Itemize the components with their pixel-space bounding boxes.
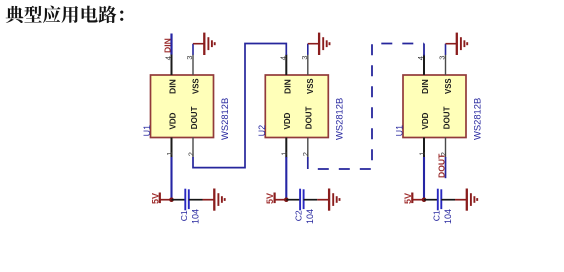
svg-text:3: 3: [300, 56, 309, 60]
wire VDD pin1 to 5V rail: [423, 157, 425, 200]
svg-text:VDD: VDD: [421, 112, 430, 129]
pin 2 DOUT stub: [307, 138, 309, 158]
svg-text:DIN: DIN: [282, 79, 292, 94]
node VDD junction: [169, 197, 174, 202]
power 5V: [265, 193, 286, 205]
node VDD junction: [422, 197, 427, 202]
wire capacitor to ground: [189, 199, 203, 201]
svg-text:VDD: VDD: [283, 112, 292, 129]
svg-text:WS2812B: WS2812B: [219, 98, 230, 140]
IC U1 WS2812B body: [151, 75, 214, 138]
pin 4 DIN stub: [171, 55, 173, 76]
svg-text:4: 4: [416, 56, 425, 60]
svg-text:VDD: VDD: [168, 112, 177, 129]
power 5V: [150, 193, 171, 205]
svg-text:3: 3: [185, 56, 194, 60]
svg-text:5V: 5V: [403, 193, 413, 204]
svg-text:2: 2: [186, 152, 195, 156]
node VDD junction: [284, 197, 289, 202]
svg-text:5V: 5V: [265, 193, 275, 204]
ground (bottom, C1): [455, 189, 477, 211]
ground (top, pin 3 U1): [446, 33, 468, 55]
pin 2 DOUT stub: [445, 138, 447, 158]
svg-text:U1: U1: [142, 125, 152, 137]
svg-text:1: 1: [165, 152, 174, 156]
wire U2 DOUT to U3 DIN dashed continuation: [308, 44, 424, 170]
svg-text:WS2812B: WS2812B: [334, 98, 345, 140]
ground (top, pin 3 U2): [308, 33, 330, 55]
power 5V: [403, 193, 424, 205]
svg-text:4: 4: [164, 56, 173, 60]
svg-text:104: 104: [190, 209, 200, 224]
svg-text:2: 2: [301, 152, 310, 156]
wire U2 DOUT solid stub: [307, 157, 309, 169]
svg-text:4: 4: [279, 56, 288, 60]
svg-text:3: 3: [438, 56, 447, 60]
pin 4 DIN stub: [285, 55, 287, 76]
pin 1 VDD stub: [423, 138, 425, 158]
ground (bottom, C2): [317, 189, 339, 211]
wire VDD pin1 to 5V rail: [170, 157, 172, 200]
svg-text:DOUT: DOUT: [305, 106, 314, 129]
wire rail to capacitor: [286, 199, 300, 201]
svg-text:U2: U2: [257, 125, 267, 137]
wire capacitor to ground: [441, 199, 455, 201]
capacitor C2 104: [300, 189, 304, 211]
pin 1 VDD stub: [285, 138, 287, 158]
wire pin3 to ground: [307, 44, 309, 55]
wire U3 DOUT stub: [445, 157, 447, 178]
wire pin3 to ground: [445, 44, 447, 55]
svg-text:C1: C1: [431, 210, 441, 221]
pin 1 VDD stub: [171, 138, 173, 158]
svg-text:DOUT: DOUT: [442, 106, 451, 129]
wire capacitor to ground: [304, 199, 318, 201]
svg-text:5V: 5V: [150, 193, 160, 204]
wire VDD pin1 to 5V rail: [285, 157, 287, 200]
capacitor C1 104: [438, 189, 442, 211]
svg-text:DIN: DIN: [162, 38, 172, 53]
svg-text:104: 104: [305, 209, 315, 224]
svg-text:C2: C2: [294, 210, 304, 221]
wire U1 DOUT to U2 DIN: [193, 44, 286, 168]
wire rail to capacitor: [424, 199, 438, 201]
svg-text:1: 1: [280, 152, 289, 156]
pin 3 VSS stub: [445, 55, 447, 76]
wire DIN input (U1 pin 4): [170, 34, 172, 55]
svg-text:VSS: VSS: [191, 78, 200, 94]
svg-text:1: 1: [417, 152, 426, 156]
wire rail to capacitor: [172, 199, 186, 201]
svg-text:C1: C1: [179, 210, 189, 221]
ground (bottom, C1): [203, 189, 225, 211]
svg-text:VSS: VSS: [306, 78, 315, 94]
svg-text:U1: U1: [395, 125, 405, 137]
svg-text:104: 104: [443, 209, 453, 224]
svg-text:DOUT: DOUT: [437, 153, 447, 178]
title 典型应用电路:: [6, 6, 124, 24]
svg-text:DIN: DIN: [420, 79, 430, 94]
capacitor C1 104: [185, 189, 189, 211]
svg-text:VSS: VSS: [444, 78, 453, 94]
svg-text:WS2812B: WS2812B: [471, 98, 482, 140]
wire into U3 pin 4: [423, 44, 425, 56]
pin 2 DOUT stub: [192, 138, 194, 158]
ground (top, pin 3 U1): [193, 33, 215, 55]
pin 3 VSS stub: [192, 55, 194, 76]
wire pin3 to ground: [192, 44, 194, 55]
pin 3 VSS stub: [307, 55, 309, 76]
svg-text:DIN: DIN: [168, 79, 178, 94]
svg-text:DOUT: DOUT: [190, 106, 199, 129]
IC U2 WS2812B body: [265, 75, 328, 138]
pin 4 DIN stub: [423, 55, 425, 76]
IC U1 WS2812B body: [403, 75, 466, 138]
